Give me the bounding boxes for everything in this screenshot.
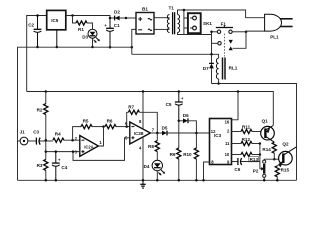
diode D2 [110,10,126,21]
wire IC2B output [150,132,162,134]
svg-text:Q1: Q1 [262,118,269,123]
svg-text:C5: C5 [166,102,172,107]
node pin5 ref join [72,150,75,153]
svg-text:D2: D2 [114,10,120,15]
svg-text:R8: R8 [148,144,154,149]
svg-text:10: 10 [225,152,230,157]
potentiometer P1 [253,159,274,180]
svg-text:D4: D4 [144,164,150,169]
wire B1 minus lead down [132,29,136,54]
node SK1 feed [183,9,186,12]
wire relay bottom rail to right side [212,84,297,181]
node R13 right [259,153,262,156]
diode D5 [162,125,210,135]
svg-text:P2: P2 [253,169,259,174]
svg-text:R1: R1 [78,27,84,32]
node Q2 base [273,158,276,161]
node feedback IC2B [125,125,128,128]
node D2 anode [125,17,128,20]
svg-text:12: 12 [211,129,216,134]
capacitor C5 [166,92,184,121]
resistor R8 [148,133,159,160]
connector J1 [18,130,37,145]
node R10 bottom [195,179,198,182]
diode D7 [203,54,214,83]
wire positive mid rail [27,92,274,126]
svg-text:SK1: SK1 [203,21,212,26]
relay coil RL1 [216,58,237,84]
IC IC3 [210,119,232,165]
svg-text:C2: C2 [28,22,34,27]
svg-text:R6: R6 [107,119,113,124]
svg-text:C4: C4 [61,165,67,170]
LED D3 [82,29,100,47]
svg-text:IC5: IC5 [51,18,59,23]
resistor R7 feedback [127,105,158,133]
resistor R9 [170,121,181,181]
svg-text:D6: D6 [183,113,189,118]
wire bottom 0V rail [18,179,297,181]
svg-text:B1: B1 [142,6,148,11]
node R12 right [259,142,262,145]
svg-text:D3: D3 [82,34,88,39]
wire switch left down to relay node [211,32,213,54]
fuse F1 [212,22,247,34]
node R5/R6/output [102,125,105,128]
wire IC2B pin5 reference [73,138,130,161]
bridge rectifier B1 [136,6,154,34]
diode D6 [179,113,197,133]
node P1 bottom [263,179,266,182]
node IC3 pin16 rail [237,90,240,93]
node C4 top [55,150,58,153]
svg-text:IC3: IC3 [214,133,222,138]
transformer T1 [167,6,179,35]
wire mechanical link dashed [224,34,226,57]
svg-text:C3: C3 [33,130,39,135]
wire top rail + output of IC5 [27,16,47,92]
wire pin3 reference line [46,151,80,153]
svg-text:IC2B: IC2B [134,131,144,136]
svg-text:Q2: Q2 [282,142,289,147]
wire Q1 collector to R14 [273,141,276,144]
wire IC5 in from D2 [66,16,110,19]
svg-text:R7: R7 [128,105,134,110]
resistor R5 feedback [73,119,104,141]
node C1 bottom [109,46,112,49]
capacitor C4 [52,152,68,181]
node C2 top [36,14,39,17]
svg-text:D5: D5 [162,125,168,130]
svg-text:PL1: PL1 [270,34,279,39]
svg-text:11: 11 [225,141,230,146]
node IC5 gnd [56,46,59,49]
svg-text:R4: R4 [55,131,61,136]
IC5 regulator [47,10,66,47]
capacitor C2 [28,16,41,48]
node R9 bottom [178,179,181,182]
op-amp IC2B [125,119,155,150]
node plug lower / F1 [245,31,248,34]
node R15 bottom [276,179,279,182]
svg-text:D7: D7 [203,66,209,71]
resistor R6 [105,119,130,129]
wire relay top rail [132,54,219,58]
resistor R3 [37,140,48,180]
node R3 bottom [45,179,48,182]
resistor R1 [73,16,93,33]
capacitor C1 [104,18,120,47]
mains socket SK1 [188,13,212,33]
node C5/D6 [178,120,181,123]
op-amp IC2A [75,136,103,157]
wire B1 to T1 secondary [154,17,170,19]
node pin4 gnd [142,179,145,182]
node pin8 gnd [202,179,205,182]
node bias pin3 [45,150,48,153]
node R2 top [45,90,48,93]
svg-text:C1: C1 [114,23,120,28]
transistor Q2 [278,142,296,168]
resistor R13 [232,152,260,162]
wire pin16 to rail [232,92,239,120]
node D6/R10 [195,132,198,135]
svg-text:R3: R3 [37,163,43,168]
wire SK1 feed down [183,10,185,35]
node R8 top [156,132,159,135]
svg-text:R15: R15 [281,167,290,172]
node C4 bottom [55,179,58,182]
LED D4 [144,160,165,180]
svg-text:F1: F1 [221,22,227,27]
wire T1 primary top to plug [178,10,265,18]
wire IC2B pin8 riser [142,92,144,130]
mains plug PL1 [265,14,293,39]
resistor R4 [53,131,80,142]
resistor R12 [232,137,260,146]
svg-text:R2: R2 [37,107,43,112]
wire pin8 to 0V [204,162,210,180]
node D7 top [210,53,213,56]
svg-text:J1: J1 [20,130,26,135]
wire SK1 stubs [184,17,191,19]
svg-text:R9: R9 [170,152,176,157]
capacitor C6 [232,158,260,172]
wire 0V top rail [18,47,132,180]
wire T1 primary bottom under SK1 [178,32,212,34]
svg-text:IC2A: IC2A [84,144,94,149]
transistor Q1 [261,118,275,142]
node R1 top [71,14,74,17]
wire base to Q2 [274,158,279,160]
svg-text:R10: R10 [183,152,192,157]
wire IC2B pin4 riser [142,137,144,180]
node feedback IC2A [71,139,74,142]
node D4 bottom [156,179,159,182]
svg-text:C6: C6 [234,167,240,172]
node bias/R2 R3 [45,139,48,142]
node RL1 bottom [217,82,220,85]
node IC2 pin8 rail [142,90,145,93]
resistor R2 [37,92,48,141]
svg-text:RL1: RL1 [229,66,238,71]
node C2 bottom [36,46,39,49]
node D3 bottom [91,46,94,49]
node C5 top [178,90,181,93]
svg-text:R5: R5 [83,119,89,124]
resistor R11 [232,125,261,134]
wire to bridge + [126,17,136,19]
relay contact RL1a [210,31,233,51]
wire pot wiper riser [260,144,262,169]
svg-text:16: 16 [225,120,230,125]
node 0V / B1 minus [131,46,134,49]
resistor R14 [262,142,276,159]
wire output riser IC2A [98,127,103,146]
wire plug lower [233,31,265,48]
ground [140,180,145,188]
svg-text:R14: R14 [262,147,271,152]
capacitor C3 [33,130,53,145]
node D2 cathode / C1 top [109,17,112,20]
svg-text:T1: T1 [169,6,175,11]
resistor R10 [183,133,198,180]
resistor R15 [275,164,289,180]
